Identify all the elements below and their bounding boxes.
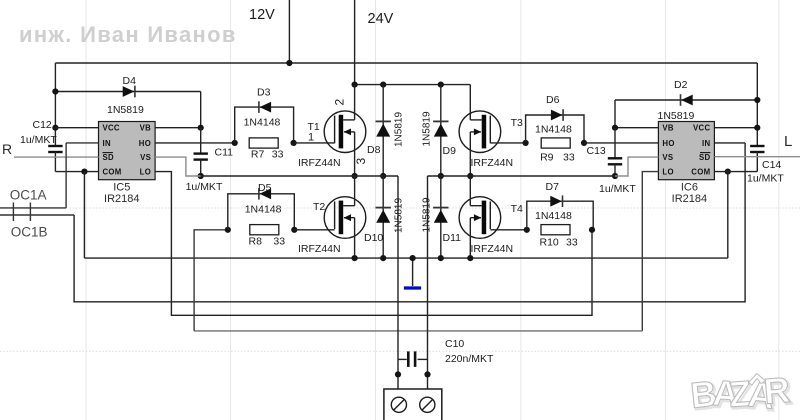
wire to T1 gate <box>294 142 335 144</box>
wire T3 drain <box>469 85 471 120</box>
junction R9 left <box>523 140 529 146</box>
svg-text:220n/MKT: 220n/MKT <box>445 353 494 365</box>
wire D2 cathode down to VB <box>614 100 616 128</box>
svg-text:VB: VB <box>140 124 152 133</box>
diode D10 <box>376 207 391 209</box>
svg-text:1N4148: 1N4148 <box>535 210 572 222</box>
diode D8 <box>376 120 391 122</box>
svg-text:D6: D6 <box>546 94 560 106</box>
svg-text:C11: C11 <box>215 147 234 159</box>
op-amp driver IC5 IR2184 <box>99 122 156 180</box>
wire bottom source rail <box>84 257 727 259</box>
wire VB IC5 <box>155 127 201 129</box>
junction R10 left <box>524 227 530 233</box>
svg-text:C13: C13 <box>587 145 606 157</box>
wire 12V top rail <box>55 62 757 64</box>
svg-text:33: 33 <box>566 236 578 248</box>
svg-text:12V: 12V <box>249 7 275 23</box>
wire LO IC6 down <box>642 172 658 331</box>
wire COM line IC5 <box>55 171 98 173</box>
wire T4 drain <box>469 176 471 206</box>
junction R10 right <box>589 227 595 233</box>
svg-text:1u/MKT: 1u/MKT <box>186 181 223 193</box>
svg-text:33: 33 <box>272 149 284 161</box>
diode D5 <box>258 188 260 200</box>
svg-text:33: 33 <box>273 235 285 247</box>
resistor R7 <box>249 138 278 148</box>
svg-text:D11: D11 <box>443 232 462 244</box>
wire D8 <box>382 85 384 176</box>
wire D4 branch <box>55 91 200 93</box>
svg-text:D2: D2 <box>674 79 688 91</box>
svg-text:C14: C14 <box>762 159 781 171</box>
junction D9 bottom <box>438 173 444 179</box>
wire IN IC6 <box>714 142 745 144</box>
svg-text:T4: T4 <box>511 203 523 215</box>
wire HO IC5 <box>155 142 235 144</box>
wire VCC IC6 <box>714 127 757 129</box>
junction C13/VS/output <box>612 173 618 179</box>
wire right 12V drop to C14 <box>756 63 758 146</box>
svg-text:D9: D9 <box>443 145 457 157</box>
wire D4 cathode down to VB <box>200 92 202 128</box>
diode D2 <box>680 94 682 106</box>
junction D11 bottom <box>438 255 444 261</box>
diode D4 <box>134 86 136 98</box>
junction R7 left <box>232 140 238 146</box>
svg-text:D8: D8 <box>367 144 381 156</box>
svg-text:инж. Иван Иванов: инж. Иван Иванов <box>19 22 237 47</box>
wire T2 source <box>354 218 356 258</box>
svg-text:IN: IN <box>103 139 111 148</box>
svg-text:OC1A: OC1A <box>10 188 47 203</box>
junction D8 top <box>380 82 386 88</box>
wire D6 loop <box>526 115 584 143</box>
svg-text:LO: LO <box>140 168 151 177</box>
wire 24V bridge rail <box>355 84 471 86</box>
wire COM IC6 down <box>727 172 729 259</box>
junction VB/C11 <box>198 125 204 131</box>
wire D10 <box>382 176 384 258</box>
wire up to R8 left <box>194 230 228 331</box>
junction C12/VCC <box>52 125 58 131</box>
wire T3 gate <box>490 142 525 144</box>
svg-text:SD: SD <box>103 153 115 162</box>
tick mark 1 <box>12 203 14 222</box>
wire left 12V drop to C12 <box>54 63 56 146</box>
svg-text:HO: HO <box>662 139 674 148</box>
tick mark 2 <box>29 203 31 222</box>
svg-text:D4: D4 <box>123 75 137 87</box>
junction C11/VS/output <box>198 173 204 179</box>
svg-text:T2: T2 <box>313 201 325 213</box>
wire VCC line IC5 <box>55 127 98 129</box>
svg-text:1N5819: 1N5819 <box>658 110 695 122</box>
junction T3 source / output <box>467 173 473 179</box>
wire ground stem <box>412 258 414 286</box>
svg-text:IC5: IC5 <box>113 182 130 194</box>
wire T2 drain <box>354 176 356 206</box>
svg-text:D10: D10 <box>364 232 383 244</box>
junction T2 source <box>352 255 358 261</box>
svg-text:1u/MKT: 1u/MKT <box>599 183 636 195</box>
svg-text:1N5819: 1N5819 <box>394 112 405 147</box>
wire C12 bottom to COM <box>54 152 56 172</box>
junction 12V rail <box>286 60 292 66</box>
wire D3 loop <box>235 107 294 143</box>
wire left output down to C10/terminal <box>397 176 399 389</box>
svg-text:T3: T3 <box>511 117 523 129</box>
svg-text:R7: R7 <box>251 149 265 161</box>
svg-text:VCC: VCC <box>693 124 710 133</box>
diode D9 <box>433 120 448 122</box>
wire D11 <box>440 176 442 258</box>
wire OC1B <box>0 214 74 216</box>
junction D4 anode at 12V <box>52 88 58 94</box>
junction R8 left <box>225 227 231 233</box>
wire C10 left stub <box>398 358 407 360</box>
op-amp driver IC6 IR2184 <box>658 122 714 180</box>
wire IN IC5 <box>66 142 98 144</box>
wire right output rail <box>428 175 616 177</box>
wire C11 top <box>200 128 202 154</box>
svg-text:IRFZ44N: IRFZ44N <box>298 243 341 255</box>
junction COM IC6 <box>725 169 731 175</box>
transistor T4 IRFZ44N <box>459 197 501 239</box>
wire C13 top <box>614 128 616 159</box>
diode D3 <box>258 101 260 113</box>
svg-text:D5: D5 <box>258 182 272 194</box>
wire LO IC5 to R10 <box>155 172 592 316</box>
svg-text:LO: LO <box>662 168 673 177</box>
svg-text:IN: IN <box>702 139 710 148</box>
wire C13 bottom <box>614 164 616 176</box>
wire C11 bottom <box>200 160 202 176</box>
svg-text:1N4148: 1N4148 <box>245 204 282 216</box>
svg-text:1N4148: 1N4148 <box>535 124 572 136</box>
wire COM down <box>83 172 85 259</box>
wire R to SD IC5 <box>14 156 99 158</box>
transistor T2 IRFZ44N <box>324 197 366 239</box>
junction VCC/C14 <box>754 125 760 131</box>
svg-text:C10: C10 <box>445 338 464 350</box>
wire C14 bottom <box>756 152 758 172</box>
wire VS IC5 to switch node <box>155 157 201 176</box>
svg-text:COM: COM <box>103 168 122 177</box>
svg-text:3: 3 <box>354 158 368 165</box>
junction terminal 1 <box>395 371 401 377</box>
svg-text:1N5819: 1N5819 <box>107 104 144 116</box>
wire T4 source <box>469 218 471 258</box>
transistor T3 IRFZ44N <box>459 111 501 153</box>
capacitor C14 <box>750 145 764 147</box>
resistor R9 <box>541 138 570 148</box>
wire cross-link LO IC6 to R8 <box>194 330 642 332</box>
wire VB IC6 <box>615 127 658 129</box>
svg-text:IR2184: IR2184 <box>672 193 707 205</box>
svg-text:R9: R9 <box>540 152 554 164</box>
junction R9 right <box>581 140 587 146</box>
wire OC1A <box>0 207 66 209</box>
capacitor C12 <box>48 145 62 147</box>
transistor T1 IRFZ44N <box>324 111 366 153</box>
wire T1 drain <box>354 85 356 120</box>
svg-text:D7: D7 <box>546 181 560 193</box>
svg-text:C12: C12 <box>33 119 52 131</box>
svg-text:IR2184: IR2184 <box>104 193 139 205</box>
wire D9 <box>440 85 442 176</box>
svg-text:SD: SD <box>699 153 711 162</box>
svg-text:VCC: VCC <box>103 124 120 133</box>
svg-text:D3: D3 <box>257 87 271 99</box>
junction T1 source / output <box>352 173 358 179</box>
svg-text:VB: VB <box>662 124 674 133</box>
wire T4 gate <box>490 229 527 231</box>
svg-text:1N5819: 1N5819 <box>422 111 433 146</box>
svg-text:COM: COM <box>691 168 710 177</box>
wire D2 branch <box>615 99 757 101</box>
svg-text:2: 2 <box>333 99 347 106</box>
capacitor C11 <box>194 152 208 154</box>
junction D9 top <box>438 82 444 88</box>
wire right output down to C10/terminal <box>427 176 429 389</box>
junction COM IC5 <box>81 169 87 175</box>
resistor R10 <box>541 225 570 235</box>
svg-text:IRFZ44N: IRFZ44N <box>471 243 514 255</box>
svg-text:R: R <box>2 141 12 157</box>
svg-text:VS: VS <box>662 153 673 162</box>
wire T3 source <box>469 132 471 176</box>
BAZAR watermark logo <box>689 369 794 419</box>
wire C10 right stub <box>418 358 428 360</box>
junction VB/C13 <box>612 125 618 131</box>
svg-text:OC1B: OC1B <box>11 225 48 240</box>
svg-text:IRFZ44N: IRFZ44N <box>471 157 514 169</box>
svg-text:R10: R10 <box>540 236 559 248</box>
junction D10 bottom <box>380 255 386 261</box>
wire VS IC6 to switch node <box>615 157 658 176</box>
wire HO IC6 <box>584 142 658 144</box>
svg-text:24V: 24V <box>368 11 394 27</box>
svg-text:1N4148: 1N4148 <box>244 117 281 129</box>
diode D11 <box>433 207 448 209</box>
connector terminal block <box>384 389 442 420</box>
wire 24V feed vertical <box>354 0 356 85</box>
resistor R8 <box>250 225 279 235</box>
junction ground at rail <box>410 255 416 261</box>
wire OC1A up to IN <box>65 143 67 208</box>
diode D7 <box>562 195 564 207</box>
svg-text:1u/MKT: 1u/MKT <box>20 134 57 146</box>
junction D8 bottom <box>380 173 386 179</box>
svg-text:33: 33 <box>563 152 575 164</box>
junction R8 right <box>291 227 297 233</box>
svg-text:IRFZ44N: IRFZ44N <box>298 157 341 169</box>
wire left output rail <box>201 175 398 177</box>
junction 24V T1 drain <box>352 82 358 88</box>
wire D7 loop <box>527 201 593 230</box>
wire to T2 gate <box>294 229 334 231</box>
junction T4 source <box>467 255 473 261</box>
svg-text:VS: VS <box>140 153 151 162</box>
svg-text:R8: R8 <box>249 235 263 247</box>
wire D5 loop <box>228 194 294 230</box>
wire 12V feed vertical <box>288 0 290 63</box>
junction D2 anode at 12V <box>754 97 760 103</box>
svg-text:HO: HO <box>139 139 151 148</box>
wire L to SD IC6 <box>714 156 800 158</box>
svg-text:L: L <box>784 133 792 150</box>
capacitor C10 <box>407 351 410 367</box>
wire OC1B to IC6 IN <box>74 143 745 302</box>
svg-text:R: R <box>762 369 791 412</box>
svg-text:1u/MKT: 1u/MKT <box>747 173 784 185</box>
svg-text:IC6: IC6 <box>681 182 698 194</box>
wire T1 source <box>354 132 356 176</box>
svg-text:1N5819: 1N5819 <box>394 198 405 233</box>
diode D6 <box>562 109 564 121</box>
svg-text:1: 1 <box>308 131 314 143</box>
capacitor C13 <box>608 157 622 159</box>
junction terminal 2 <box>424 371 430 377</box>
junction R7 right <box>291 140 297 146</box>
wire COM line IC6 <box>714 171 757 173</box>
